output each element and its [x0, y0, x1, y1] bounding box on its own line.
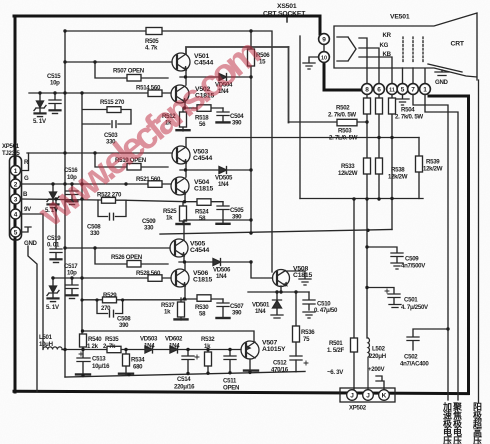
- pin 3: [11, 194, 21, 204]
- svg-text:GND: GND: [435, 79, 449, 86]
- svg-text:R502: R502: [336, 105, 350, 112]
- RC pair R529 C508: [82, 300, 186, 317]
- svg-text:220μH: 220μH: [369, 353, 386, 360]
- svg-text:5: 5: [14, 229, 18, 236]
- resistor R507: [127, 75, 141, 82]
- svg-text:5. 1V: 5. 1V: [33, 118, 47, 125]
- capacitor C516: [66, 184, 78, 201]
- diode VD502: [170, 346, 178, 353]
- svg-text:R521 560: R521 560: [136, 176, 161, 183]
- zener 5.1V (middle): [47, 184, 59, 204]
- capacitor C504: [217, 108, 229, 122]
- svg-text:A1015Y: A1015Y: [262, 346, 286, 353]
- pin 5: [11, 227, 21, 237]
- wire V508 emitter row: [248, 286, 309, 292]
- inductor L501: [43, 347, 62, 350]
- transistor V505: [170, 239, 188, 257]
- wire R506 bottom node: [250, 77, 252, 233]
- svg-text:G: G: [24, 175, 29, 182]
- resistor R540: [82, 347, 84, 349]
- socket pin 9: [319, 34, 330, 45]
- transistor V502: [171, 85, 189, 103]
- resistor R501: [353, 352, 355, 389]
- svg-text:压: 压: [473, 436, 482, 444]
- capacitor C514: [182, 350, 194, 375]
- svg-text:~6. 3V: ~6. 3V: [327, 369, 344, 376]
- wire R503 row: [289, 121, 368, 123]
- svg-text:C1815: C1815: [293, 272, 312, 279]
- XP502 pin 2: [363, 390, 374, 401]
- socket pin 10: [319, 52, 330, 63]
- diode VD505: [219, 167, 227, 174]
- ground at pin 10: [303, 57, 319, 69]
- resistor R524: [197, 199, 211, 206]
- svg-text:1k: 1k: [164, 309, 171, 316]
- svg-text:4. 7μ/250V: 4. 7μ/250V: [401, 304, 429, 311]
- wire V502 emitter row: [183, 101, 223, 108]
- svg-text:CRT: CRT: [451, 41, 465, 48]
- svg-text:1N4: 1N4: [216, 273, 227, 280]
- CRT grid dashed lines: [403, 37, 423, 62]
- svg-text:OPEN: OPEN: [223, 385, 239, 392]
- capacitor C509: [367, 247, 403, 269]
- svg-text:2. 7k/0. 5W: 2. 7k/0. 5W: [328, 112, 356, 119]
- svg-text:220μ/16: 220μ/16: [174, 384, 195, 391]
- resistor R502: [366, 94, 368, 158]
- svg-text:1 2k: 1 2k: [87, 343, 99, 350]
- transistor V503: [172, 146, 190, 164]
- svg-text:XP502: XP502: [349, 405, 367, 412]
- transistor V506: [171, 269, 189, 287]
- diode VD506: [213, 259, 221, 266]
- wire pin1 to grid rail: [425, 94, 458, 400]
- XP502 pin 3: [379, 390, 390, 401]
- svg-text:R532: R532: [201, 336, 215, 343]
- capacitor C515: [49, 93, 61, 110]
- capacitor C507: [217, 299, 229, 318]
- zener VD holding 5.1V (top): [34, 93, 46, 113]
- svg-text:58: 58: [199, 311, 206, 318]
- pin 4: [11, 209, 21, 219]
- wire y199 to R501 rail: [300, 198, 423, 200]
- svg-text:R515 270: R515 270: [100, 99, 125, 106]
- svg-text:R528 560: R528 560: [136, 270, 161, 277]
- svg-text:4n7/AC400: 4n7/AC400: [400, 361, 429, 368]
- resistor R514: [148, 90, 162, 97]
- wire: border left: [14, 16, 17, 392]
- svg-text:2: 2: [14, 181, 18, 188]
- wire +200V rail: [367, 199, 368, 338]
- connector XP502 body: [340, 388, 395, 402]
- plus sign C513: [79, 352, 83, 356]
- resistor R530: [197, 295, 211, 302]
- svg-text:J: J: [366, 393, 370, 400]
- wire V501 collector to x288: [186, 47, 289, 53]
- capacitor C511: [224, 350, 236, 374]
- svg-text:1k: 1k: [166, 215, 173, 222]
- svg-text:KG: KG: [380, 42, 389, 49]
- svg-text:TJ23-5: TJ23-5: [2, 150, 20, 157]
- wire: thick right bus from pin 1 down right side: [429, 96, 469, 394]
- svg-text:CRT SOCKET: CRT SOCKET: [263, 11, 306, 18]
- svg-text:R514 560: R514 560: [136, 85, 161, 92]
- svg-text:XP501: XP501: [2, 143, 20, 150]
- diode VD501: [271, 292, 283, 318]
- svg-text:R533: R533: [341, 163, 355, 170]
- wire x288 down to R503 row: [288, 47, 290, 123]
- svg-text:C1815: C1815: [194, 186, 213, 193]
- svg-text:2. 7k/0. 5W: 2. 7k/0. 5W: [395, 114, 423, 121]
- capacitor C517: [66, 278, 78, 295]
- svg-text:VD602: VD602: [165, 336, 183, 343]
- svg-text:R504: R504: [401, 107, 415, 114]
- svg-text:0. 47μ/50: 0. 47μ/50: [314, 307, 338, 314]
- transistor V507: [241, 341, 259, 359]
- wire emitter bus y372: [65, 372, 305, 378]
- svg-text:10μH: 10μH: [39, 341, 53, 348]
- svg-text:4: 4: [14, 211, 18, 218]
- svg-text:1k: 1k: [204, 343, 211, 350]
- svg-text:R529: R529: [103, 292, 117, 299]
- wire x354 rail down to R501: [353, 199, 355, 338]
- wire pin 7 to tube: [412, 68, 414, 84]
- svg-text:+200V: +200V: [368, 366, 386, 373]
- wire cathode KR: [359, 38, 367, 84]
- resistor R536: [293, 326, 300, 342]
- svg-text:VE501: VE501: [390, 14, 410, 21]
- svg-text:10μ/16: 10μ/16: [92, 363, 110, 370]
- capacitor C510: [303, 292, 315, 318]
- wire V504 emitter row: [183, 194, 223, 202]
- wire V507 emitter down: [249, 359, 251, 373]
- svg-text:330: 330: [90, 230, 100, 237]
- svg-text:1N4: 1N4: [144, 343, 155, 350]
- svg-text:680: 680: [133, 364, 143, 371]
- transistor V504: [171, 177, 189, 195]
- svg-text:12k/2W: 12k/2W: [423, 166, 443, 173]
- wire main bottom row: [62, 349, 241, 351]
- wire long horizontal to pin11 rail: [160, 230, 392, 235]
- svg-text:1: 1: [14, 168, 18, 175]
- svg-text:1. 5/2F: 1. 5/2F: [327, 347, 344, 354]
- node dots bottom row: [63, 348, 66, 351]
- connector XP501 body: [10, 156, 22, 240]
- resistor R506: [250, 31, 252, 77]
- wire cathode KB: [359, 57, 392, 84]
- svg-text:1N4: 1N4: [255, 308, 266, 315]
- svg-text:10: 10: [321, 56, 327, 62]
- XP502 pin 1: [347, 390, 358, 401]
- svg-text:GND: GND: [24, 240, 38, 247]
- wire R519 row: [95, 153, 168, 167]
- wire V508 base: [251, 262, 273, 278]
- resistor R505: [65, 30, 251, 32]
- resistor R534: [125, 350, 127, 376]
- svg-text:75: 75: [303, 336, 310, 343]
- svg-text:L501: L501: [39, 334, 53, 341]
- svg-text:R501: R501: [329, 340, 343, 347]
- svg-text:压: 压: [443, 436, 452, 444]
- svg-text:R536: R536: [301, 329, 315, 336]
- wire V503 emitter / V504 collector / VD505 row: [180, 163, 251, 177]
- diode VD503: [145, 346, 153, 353]
- capacitor C501: [367, 288, 401, 308]
- svg-text:C511: C511: [223, 378, 237, 385]
- socket pin 8: [362, 84, 373, 95]
- plus sign C501: [385, 289, 389, 293]
- wire: thick from pin 10 to pin 8: [324, 62, 362, 90]
- wire V503 collector up to x276: [186, 138, 419, 148]
- wire pin9-pin10: [323, 44, 325, 51]
- wire rail x65: [64, 31, 66, 377]
- svg-text:11: 11: [389, 87, 395, 93]
- svg-text:C502: C502: [404, 354, 418, 361]
- resistor R539: [418, 138, 420, 199]
- RC pair R522 C506: [98, 200, 186, 220]
- inductor L502: [368, 338, 369, 389]
- wire V507 top supply row y331: [83, 331, 254, 342]
- svg-text:K: K: [382, 393, 387, 400]
- node dots right block: [365, 120, 368, 123]
- svg-text:3: 3: [14, 196, 18, 203]
- ground at pin 5: [396, 94, 409, 105]
- resistor R512: [182, 108, 184, 131]
- watermark www.elecfans.com: [30, 31, 269, 235]
- wire x298 rail: [299, 36, 301, 199]
- wire V505 emitter / V506 collector / VD506 row: [179, 256, 251, 269]
- svg-text:330: 330: [144, 225, 154, 232]
- socket pin 5: [397, 84, 408, 95]
- wire V506 base row: [52, 277, 171, 279]
- svg-text:1N4: 1N4: [169, 343, 180, 350]
- svg-text:2. 7L/0. 5W: 2. 7L/0. 5W: [329, 135, 358, 142]
- wire V505 collector up and right to x251: [184, 220, 251, 240]
- wire pin2 G base wire V504: [21, 183, 172, 185]
- wire pin3 B: [21, 199, 99, 200]
- svg-text:C509: C509: [405, 256, 419, 263]
- socket pin 11: [387, 84, 398, 95]
- svg-text:VD503: VD503: [140, 336, 158, 343]
- svg-text:R534: R534: [131, 357, 145, 364]
- ground at CRT: [435, 70, 449, 76]
- capacitor C513: [77, 350, 90, 376]
- node dots left block: [63, 29, 66, 32]
- socket pin 6: [374, 84, 385, 95]
- svg-text:470/16: 470/16: [271, 367, 289, 374]
- svg-text:12k/2W: 12k/2W: [338, 170, 358, 177]
- wire CRT anode rail: [478, 80, 480, 403]
- svg-text:5. 1V: 5. 1V: [46, 304, 60, 311]
- svg-text:C501: C501: [404, 297, 418, 304]
- svg-text:L502: L502: [372, 346, 386, 353]
- svg-text:R535: R535: [105, 336, 119, 343]
- wire cathode KG: [359, 48, 379, 84]
- wire V502 base row: [29, 92, 171, 94]
- svg-text:8: 8: [365, 86, 369, 93]
- svg-text:压: 压: [453, 436, 462, 444]
- resistor R535: [107, 346, 121, 352]
- resistor R504b: [378, 94, 380, 158]
- svg-text:58: 58: [199, 215, 206, 222]
- svg-text:4n7/500V: 4n7/500V: [401, 263, 426, 270]
- wire pin1 R to node: [21, 153, 29, 171]
- svg-text:9: 9: [322, 37, 326, 44]
- svg-text:7: 7: [411, 86, 415, 93]
- diode VD504: [219, 74, 227, 81]
- svg-text:270: 270: [101, 305, 111, 312]
- RC pair R515 C503: [83, 110, 132, 128]
- resistor R521: [148, 181, 162, 188]
- wire V506 emitter row: [183, 286, 223, 299]
- svg-text:5: 5: [401, 86, 405, 93]
- svg-text:C512: C512: [273, 360, 287, 367]
- CRT electron gun: [337, 37, 356, 61]
- resistor R528: [148, 275, 162, 282]
- svg-text:4. 7k: 4. 7k: [145, 45, 158, 52]
- svg-text:10p: 10p: [50, 80, 60, 87]
- capacitor C519: [50, 199, 62, 259]
- resistor R532: [207, 350, 209, 374]
- wire V503 base row: [27, 152, 172, 154]
- wire pin7 to focus rail: [413, 94, 448, 400]
- resistor R537: [180, 298, 182, 320]
- resistor R504: [391, 94, 393, 229]
- svg-text:C513: C513: [92, 356, 106, 363]
- svg-text:R539: R539: [426, 159, 440, 166]
- svg-text:2. 7k: 2. 7k: [103, 343, 116, 350]
- svg-text:KR: KR: [383, 32, 392, 39]
- wire pin 5 to tube: [402, 68, 404, 84]
- svg-text:KB: KB: [383, 51, 392, 58]
- resistor R525: [182, 202, 184, 225]
- svg-text:390: 390: [232, 310, 242, 317]
- resistor R503: [337, 119, 357, 126]
- ground at XP501 pin 5: [21, 227, 31, 232]
- svg-text:12k/2W: 12k/2W: [388, 174, 408, 181]
- wire R507 row: [95, 62, 168, 78]
- wire V505 base row: [65, 247, 170, 249]
- capacitor C505: [217, 202, 229, 224]
- wire R526 row: [95, 248, 168, 264]
- svg-text:C4544: C4544: [193, 155, 212, 162]
- svg-text:R538: R538: [391, 167, 405, 174]
- capacitor C512: [290, 356, 302, 360]
- svg-text:390: 390: [232, 120, 242, 127]
- wire V501 base row: [65, 61, 172, 63]
- svg-text:390: 390: [232, 214, 242, 221]
- svg-text:6: 6: [377, 86, 381, 93]
- resistor R538: [378, 174, 380, 199]
- svg-text:J: J: [350, 393, 354, 400]
- socket pin 7: [408, 84, 419, 95]
- wire XP502 pin3 flag symbol: [376, 376, 384, 389]
- svg-text:R507 OPEN: R507 OPEN: [113, 68, 144, 75]
- resistor R518: [197, 105, 211, 112]
- plus sign C512: [304, 361, 308, 365]
- wire R536/C512 rail: [295, 292, 297, 372]
- transistor V501: [172, 53, 190, 71]
- svg-text:1: 1: [423, 86, 427, 93]
- svg-text:C1815: C1815: [193, 277, 212, 284]
- transistor V508: [273, 270, 290, 287]
- wire: CRT socket feed drop to pin 9: [319, 16, 322, 34]
- svg-text:R503: R503: [338, 128, 352, 135]
- svg-text:10p: 10p: [67, 270, 77, 277]
- resistor R533: [366, 174, 368, 199]
- wire V508 collector to ground: [286, 271, 311, 285]
- tick under CRT SOCKET label: [286, 17, 288, 22]
- zener 5.1V (bottom): [47, 278, 59, 298]
- wire pin 1 to tube: [424, 69, 426, 84]
- wire pin4 9V: [21, 214, 44, 349]
- svg-text:R540: R540: [88, 336, 102, 343]
- wire rail x82: [81, 93, 83, 335]
- CRT tube VE501 outline: [334, 13, 477, 80]
- resistor R519: [127, 164, 141, 171]
- pin 1: [11, 166, 21, 176]
- resistor R526: [127, 261, 141, 268]
- svg-text:XS501: XS501: [277, 3, 297, 10]
- wire: border top: [14, 15, 320, 18]
- wire XP501 shield tail: [28, 246, 37, 392]
- capacitor C502: [407, 329, 448, 350]
- plus sign C514: [195, 355, 199, 359]
- svg-text:1N4: 1N4: [218, 181, 229, 188]
- wire: border bottom: [14, 391, 468, 393]
- wire V501 emitter down / V502 collector / VD504 row: [180, 70, 250, 85]
- wire top supply to x276: [251, 31, 272, 272]
- svg-text:R526 OPEN: R526 OPEN: [111, 254, 142, 261]
- svg-text:56: 56: [199, 121, 206, 128]
- svg-text:C4544: C4544: [190, 247, 209, 254]
- svg-text:C514: C514: [177, 376, 191, 383]
- pin 2: [11, 179, 21, 189]
- socket pin 1: [420, 84, 431, 95]
- svg-text:390: 390: [119, 322, 129, 329]
- svg-text:0. 01: 0. 01: [47, 242, 60, 249]
